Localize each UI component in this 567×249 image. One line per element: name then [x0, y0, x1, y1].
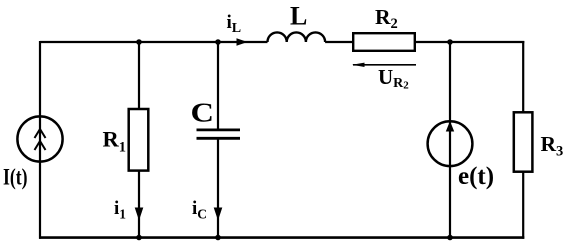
- arrow iC: [214, 208, 223, 221]
- resistor R1: [129, 109, 149, 171]
- wire left: [39, 41, 41, 239]
- inductor L: [268, 32, 326, 42]
- wire C branch lower: [217, 138, 219, 237]
- current source arrows: [35, 129, 46, 150]
- resistor R2: [353, 33, 415, 51]
- svg-text:e(t): e(t): [458, 163, 494, 190]
- svg-text:iL: iL: [227, 12, 242, 36]
- node bottom e: [447, 235, 453, 241]
- wire bottom: [39, 236, 524, 239]
- svg-text:C: C: [191, 98, 215, 128]
- capacitor C plate 1: [197, 128, 241, 131]
- capacitor C plate 2: [197, 137, 241, 140]
- wire C branch upper: [217, 42, 219, 130]
- node top R1: [136, 39, 142, 45]
- node top e: [447, 39, 453, 45]
- arrow e(t): [446, 121, 454, 132]
- svg-text:iC: iC: [192, 198, 207, 222]
- voltage source e(t): [428, 121, 473, 166]
- svg-text:UR2: UR2: [378, 65, 409, 92]
- node bottom R1: [136, 235, 142, 241]
- wire R2-to-right-corner: [415, 41, 524, 43]
- wire right lower: [522, 172, 524, 239]
- current source I(t): [17, 116, 62, 161]
- arrow i1: [135, 208, 144, 221]
- wire right upper: [522, 41, 524, 112]
- wire inductor-to-R2: [325, 41, 353, 43]
- svg-text:L: L: [290, 2, 307, 31]
- svg-text:I(t): I(t): [3, 165, 28, 191]
- svg-text:R1: R1: [103, 127, 127, 156]
- wire R1 branch lower: [138, 171, 140, 238]
- node top C: [215, 39, 221, 45]
- wire e branch: [449, 42, 451, 238]
- arrow URsub2: [353, 64, 416, 66]
- svg-text:R3: R3: [541, 132, 564, 160]
- arrow iL: [237, 38, 248, 46]
- wire R1 branch upper: [138, 42, 140, 109]
- node bottom C: [215, 235, 221, 241]
- wire top-left segment: [40, 41, 268, 43]
- svg-text:i1: i1: [114, 198, 126, 222]
- svg-text:R2: R2: [375, 5, 398, 32]
- resistor R3: [514, 112, 533, 171]
